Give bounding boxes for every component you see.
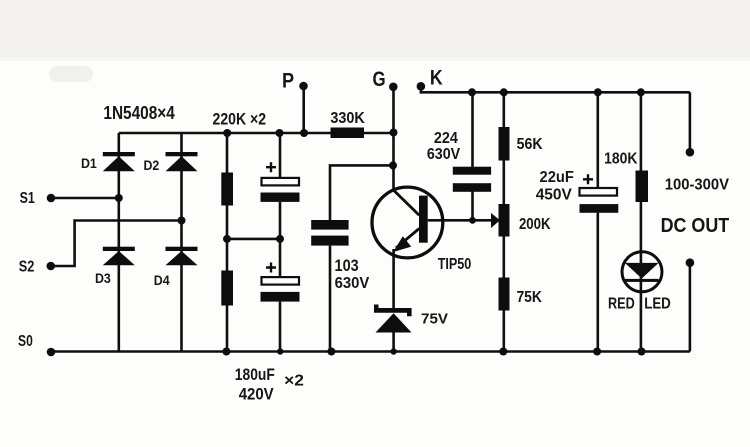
svg-text:K: K [430,66,443,90]
svg-text:180K: 180K [604,151,638,168]
svg-text:420V: 420V [239,386,274,404]
svg-text:180uF: 180uF [235,366,275,384]
svg-text:630V: 630V [427,146,461,163]
faint smudge [49,66,93,82]
LED indicator [622,252,662,292]
wire 103 cap to bottom rail [329,246,332,352]
node S2 on bridge [178,217,186,225]
svg-text:S0: S0 [18,333,33,350]
node top rail at 220K [223,129,231,137]
node bottom rail at 103 [327,348,335,356]
terminal S2 [47,262,56,271]
wire 180uF caps leg upper [279,133,282,177]
svg-text:D4: D4 [154,272,170,288]
wire 180uF caps leg lower [279,302,282,352]
resistor 220K lower [221,271,233,306]
diode D4 [166,247,198,266]
svg-text:630V: 630V [335,275,370,292]
diode D1 [103,152,135,171]
capacitor 103 630V [311,220,348,246]
svg-text:G: G [372,67,385,91]
wire 22uF lower leg [596,213,599,352]
svg-text:200K: 200K [519,216,551,233]
node caps midpoint [276,235,284,243]
svg-text:1N5408×4: 1N5408×4 [103,103,174,123]
resistor 75K [499,278,510,311]
zener diode 75V [374,305,412,333]
resistor 56K [499,127,510,161]
wire top rail right of 330K [364,132,394,135]
node bottom rail at 75K [499,348,507,356]
svg-text:D2: D2 [144,157,160,173]
resistor 330K [331,128,365,139]
node bottom rail at zener [390,348,396,354]
node bottom rail at 180uF [277,348,283,354]
terminal S0 [47,348,56,357]
terminal DC OUT minus [686,258,695,267]
wire 180K/LED leg [640,92,643,351]
wire output plus stub [689,92,692,152]
node K rail at 180K [637,88,645,96]
svg-text:LED: LED [644,295,671,312]
terminal P [299,82,308,91]
svg-text:DC OUT: DC OUT [661,214,730,237]
wire divider midpoint link [227,238,280,241]
wire base to pot wiper [428,219,492,222]
terminal G [389,83,398,92]
wire P stub [302,86,305,133]
resistor 180K [636,171,649,203]
capacitor 180uF upper (electrolytic) [261,162,300,202]
wire 56K/200K/75K chain leg [502,92,505,351]
wire bridge left leg D1/D3 [118,133,121,352]
capacitor 224 630V [453,167,491,192]
svg-text:100-300V: 100-300V [665,177,730,194]
svg-text:×2: ×2 [284,373,304,390]
node G branch to 103 [389,161,397,169]
terminal DC OUT plus [686,148,695,157]
svg-text:22uF: 22uF [540,169,575,186]
svg-text:330K: 330K [330,110,365,127]
resistor 220K upper [221,173,233,206]
wire bottom rail S0 [51,350,690,353]
svg-text:S2: S2 [19,259,35,276]
wire 180uF caps leg middle [279,202,282,277]
svg-text:D1: D1 [81,155,97,171]
terminal S1 [47,194,56,203]
wire top rail left of 330K [119,132,331,135]
node K rail at 224 [468,88,476,96]
node top rail at 180uF [276,129,284,137]
capacitor 180uF lower (electrolytic) [261,263,300,302]
node top rail at P [300,129,308,137]
wire S2 lead [51,221,182,267]
potentiometer 200K [499,204,510,237]
node bottom rail at 22uF [593,348,601,356]
node divider midpoint [223,235,231,243]
wire zener to bottom rail [392,332,395,351]
svg-text:P: P [282,69,294,93]
svg-text:D3: D3 [95,270,111,286]
wire 220K divider leg [226,133,229,352]
wire 22uF upper leg [596,92,599,187]
wire output minus stub [689,263,692,352]
wire K rail [421,87,690,93]
terminal K [417,82,426,91]
wire 224 cap upper leg [471,92,474,167]
svg-text:56K: 56K [517,136,543,153]
terminal dots [47,82,695,357]
node K rail at 56K [500,88,508,96]
svg-text:450V: 450V [536,186,573,203]
wire branch to 103 cap [330,165,394,220]
svg-text:RED: RED [608,295,635,312]
node base / 224 cap [469,217,476,224]
svg-text:S1: S1 [20,190,35,207]
node bottom rail at 220K [222,348,230,356]
transistor Q1 TIP50 [372,187,443,258]
svg-text:TIP50: TIP50 [438,256,472,273]
potentiometer wiper arrow [491,213,500,228]
svg-text:75K: 75K [516,289,542,306]
wire bridge right leg D2/D4 [180,133,183,352]
svg-text:220K ×2: 220K ×2 [213,110,267,129]
node S1 on bridge [115,194,123,202]
svg-text:103: 103 [335,257,359,275]
diode D2 [166,152,198,171]
wire emitter to zener [392,249,395,308]
svg-text:224: 224 [434,130,458,147]
capacitor 22uF 450V (electrolytic) [580,174,619,213]
node top rail at G [390,129,398,137]
svg-text:75V: 75V [421,311,449,328]
wire 224 cap lower leg to base node [471,192,474,221]
node K rail at 22uF [594,88,602,96]
wire S1 lead [51,197,119,200]
node bottom rail at LED [638,348,646,356]
diode D3 [103,247,135,266]
wire G vertical to collector [392,87,395,191]
